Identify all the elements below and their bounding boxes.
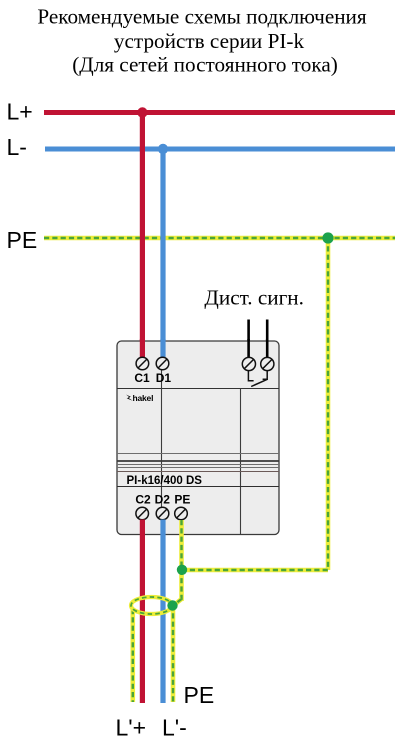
svg-text:PE: PE (7, 227, 38, 253)
svg-text:L+: L+ (7, 99, 33, 125)
svg-text:L'+: L'+ (116, 715, 147, 740)
svg-text:C1: C1 (134, 371, 150, 385)
svg-text:D2: D2 (155, 493, 171, 507)
svg-text:D1: D1 (156, 371, 172, 385)
svg-text:Рекомендуемые схемы подключени: Рекомендуемые схемы подключения (37, 5, 367, 29)
svg-text:устройств серии PI-k: устройств серии PI-k (114, 29, 305, 53)
svg-text:Дист. сигн.: Дист. сигн. (204, 286, 304, 310)
svg-text:PI-k16/400 DS: PI-k16/400 DS (127, 475, 203, 487)
svg-text:hakel: hakel (133, 393, 154, 403)
svg-text:PE: PE (184, 682, 215, 708)
svg-text:C2: C2 (135, 493, 151, 507)
svg-text:L-: L- (7, 134, 27, 160)
svg-text:L'-: L'- (162, 715, 187, 740)
svg-text:(Для сетей постоянного тока): (Для сетей постоянного тока) (72, 53, 338, 77)
svg-text:PE: PE (174, 493, 190, 507)
